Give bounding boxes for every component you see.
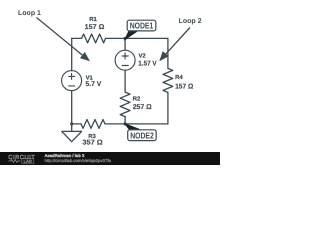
annotation Loop 1 arrow xyxy=(37,18,91,62)
wire right branch upper xyxy=(167,38,169,68)
resistor R4 xyxy=(163,68,173,92)
junction ground node xyxy=(70,122,73,125)
svg-text:Loop 1: Loop 1 xyxy=(18,10,41,17)
resistor R2 xyxy=(120,92,130,116)
wire node1 junction to top-right corner xyxy=(125,37,168,39)
svg-text:NODE2: NODE2 xyxy=(130,130,154,140)
wire right branch lower xyxy=(167,92,169,124)
svg-text:Loop 2: Loop 2 xyxy=(179,18,202,25)
wire R1 to node1 junction xyxy=(106,37,126,39)
svg-text:LAB: LAB xyxy=(24,158,33,163)
svg-text:1.57 V: 1.57 V xyxy=(138,61,157,68)
wire V2 stub from top wire xyxy=(124,38,126,50)
wire top-left vertical to V1 xyxy=(71,38,73,70)
voltage source V2 xyxy=(115,50,135,70)
resistor R3 xyxy=(81,120,105,129)
svg-text:V2: V2 xyxy=(139,53,147,60)
svg-text:NODE1: NODE1 xyxy=(130,21,154,31)
ground xyxy=(62,131,82,141)
wire bottom left segment xyxy=(72,123,81,125)
svg-text:R2: R2 xyxy=(133,96,141,103)
svg-text:157 Ω: 157 Ω xyxy=(175,84,194,91)
footer bar xyxy=(0,152,220,165)
wire ground stub xyxy=(71,124,73,131)
junction node2 xyxy=(124,122,127,125)
node NODE1 xyxy=(125,20,156,39)
svg-text:257 Ω: 257 Ω xyxy=(133,104,152,111)
voltage source V1 xyxy=(62,71,82,91)
wire V2 to R2 xyxy=(124,70,126,92)
svg-text:R1: R1 xyxy=(89,16,97,23)
resistor R1 xyxy=(82,34,106,43)
wire bottom right segment xyxy=(125,123,168,125)
wire V1 bottom to ground junction xyxy=(71,91,73,124)
annotation Loop 2 arrow xyxy=(159,28,190,62)
wire node2 junction to R3 xyxy=(105,123,125,125)
wire top segment left to R1 xyxy=(72,37,82,39)
wire R2 to node2 junction xyxy=(124,117,126,124)
svg-text:357 Ω: 357 Ω xyxy=(82,140,103,147)
svg-text:157 Ω: 157 Ω xyxy=(85,24,105,31)
junction node1 xyxy=(124,37,127,40)
svg-text:5.7 V: 5.7 V xyxy=(86,81,102,88)
svg-text:http://circuitlab.com/c/e5qa2p: http://circuitlab.com/c/e5qa2pv37fa xyxy=(45,158,112,163)
svg-text:R4: R4 xyxy=(175,74,183,81)
node NODE2 xyxy=(125,124,156,141)
